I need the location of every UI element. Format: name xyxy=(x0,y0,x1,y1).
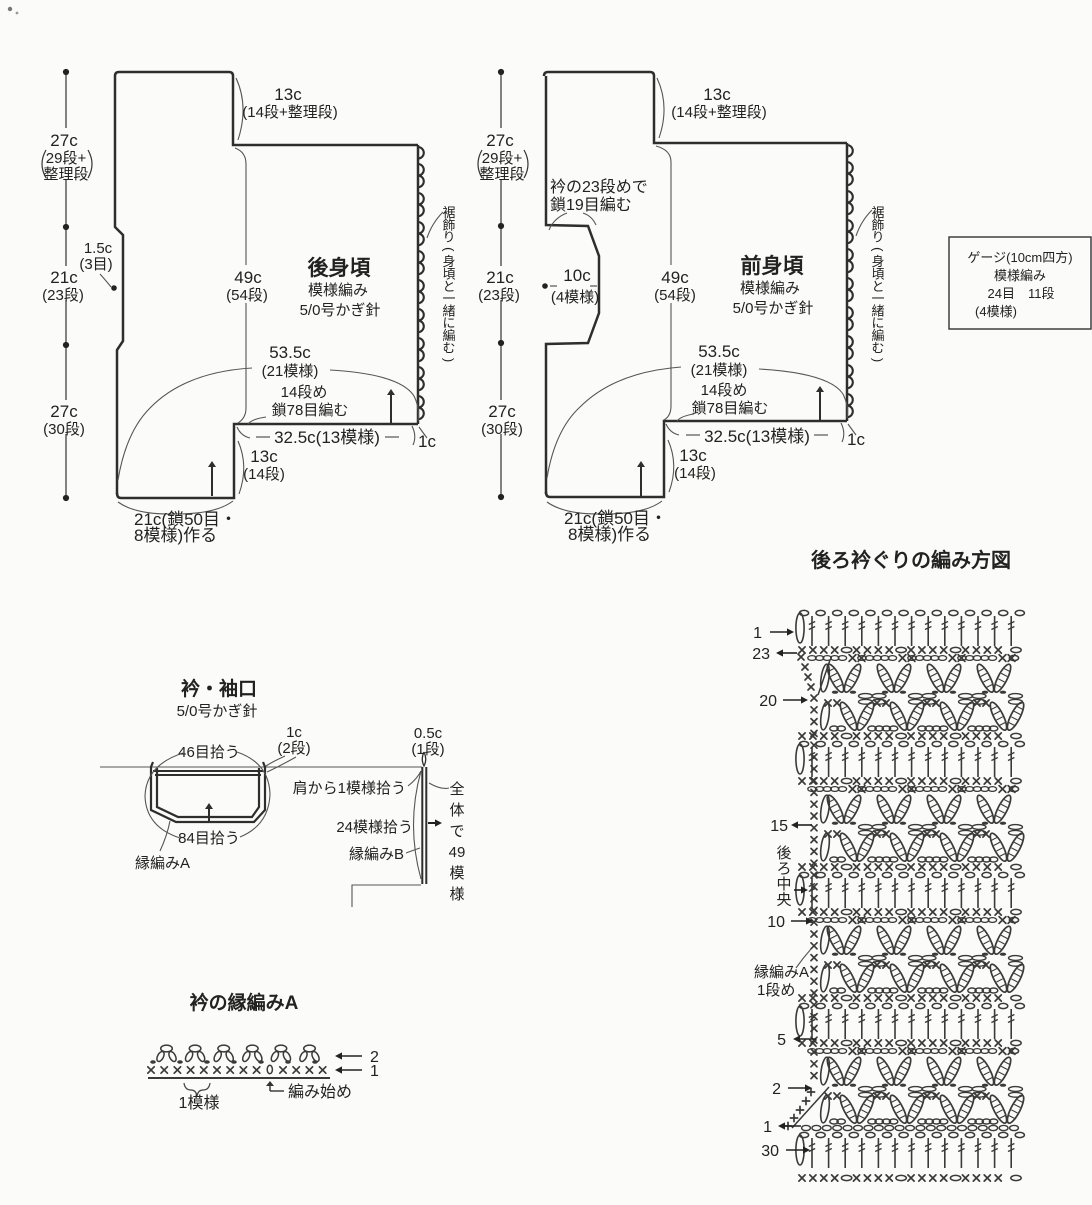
back 32.5c(13模様) label xyxy=(237,427,399,447)
back 53.5c(21模様) dimension arc xyxy=(118,343,419,480)
svg-text:縁編みB: 縁編みB xyxy=(349,846,404,863)
svg-text:(23段): (23段) xyxy=(478,287,520,304)
svg-text:1c: 1c xyxy=(847,430,865,449)
svg-text:53.5c: 53.5c xyxy=(698,342,740,361)
svg-text:24模様拾う: 24模様拾う xyxy=(336,819,413,836)
svg-text:1c: 1c xyxy=(286,724,302,741)
chart row: chain row block1 xyxy=(808,655,1019,662)
chart row: sc row after block2 xyxy=(799,864,1021,870)
svg-text:10: 10 xyxy=(767,914,785,931)
svg-text:後: 後 xyxy=(776,845,791,862)
svg-text:模様編み: 模様編み xyxy=(308,282,368,299)
edging A chain dots xyxy=(150,1060,318,1064)
svg-text:(4模様): (4模様) xyxy=(975,304,1017,319)
chart row: chain row block4 xyxy=(808,1048,1019,1055)
chart left edge decrease plus marks xyxy=(784,1088,814,1129)
edging A sc row xyxy=(148,1065,326,1073)
back 13c(14段) label xyxy=(238,441,285,494)
front 13c(14段) label xyxy=(668,440,716,492)
collar ellipse annotation xyxy=(145,752,270,838)
svg-text:): ) xyxy=(441,358,456,362)
svg-text:模: 模 xyxy=(449,865,464,882)
svg-text:5/0号かぎ針: 5/0号かぎ針 xyxy=(300,302,381,319)
svg-text:央: 央 xyxy=(776,892,791,909)
svg-text:53.5c: 53.5c xyxy=(269,343,311,362)
back dim label 21c(23段) xyxy=(42,266,88,304)
svg-text:1.5c: 1.5c xyxy=(84,240,113,257)
chart row: dc row 30 xyxy=(796,1132,1025,1168)
chart row: leaf row block2 a xyxy=(819,793,1022,835)
back dim label 27c(30段) xyxy=(42,400,88,438)
svg-text:模様編み: 模様編み xyxy=(740,280,800,297)
svg-text:整理段: 整理段 xyxy=(43,166,88,183)
chart row: dc row block1 xyxy=(796,610,1025,646)
svg-text:): ) xyxy=(870,358,885,362)
svg-text:14段め: 14段め xyxy=(701,382,748,399)
chart row: sc row after block1 xyxy=(799,733,1021,739)
svg-text:13c: 13c xyxy=(274,85,302,104)
svg-text:中: 中 xyxy=(776,876,791,893)
svg-text:24目 11段: 24目 11段 xyxy=(988,286,1055,301)
svg-text:1: 1 xyxy=(370,1063,379,1080)
back 49c(54段) leader and label xyxy=(226,148,268,423)
svg-text:ゲージ(10cm四方): ゲージ(10cm四方) xyxy=(967,250,1072,265)
svg-text:(14段+整理段): (14段+整理段) xyxy=(671,104,766,121)
svg-text:縁編みA: 縁編みA xyxy=(754,964,809,981)
svg-text:5: 5 xyxy=(777,1032,786,1049)
svg-text:14段め: 14段め xyxy=(281,384,328,401)
svg-text:49: 49 xyxy=(449,844,466,861)
front knitting direction arrows xyxy=(819,391,821,420)
back 1c label xyxy=(412,426,436,451)
back dimension line xyxy=(63,69,69,501)
chart row: dc row block2 xyxy=(796,741,1025,777)
back label 13c(14段+整理段) xyxy=(236,78,338,140)
body corner line xyxy=(352,885,421,907)
svg-text:縁編みA: 縁編みA xyxy=(135,855,190,872)
svg-text:13c: 13c xyxy=(250,447,278,466)
svg-text:46目拾う: 46目拾う xyxy=(178,744,240,761)
cuff 全体で49模様 vertical label xyxy=(429,780,465,903)
svg-text:49c: 49c xyxy=(661,268,689,287)
gauge box xyxy=(949,237,1091,329)
svg-text:0.5c: 0.5c xyxy=(414,725,443,742)
chart row: dc row block3 xyxy=(796,872,1025,908)
svg-text:8模様)作る: 8模様)作る xyxy=(568,525,651,544)
svg-text:(54段): (54段) xyxy=(654,287,696,304)
svg-text:(2段): (2段) xyxy=(277,740,310,757)
svg-text:(23段): (23段) xyxy=(42,287,84,304)
svg-text:(21模様): (21模様) xyxy=(262,363,319,380)
svg-text:肩から1模様拾う: 肩から1模様拾う xyxy=(293,780,406,797)
chart row: leaf row block4 a xyxy=(819,1055,1022,1097)
front label 14段め 鎖78目編む xyxy=(677,382,768,421)
svg-text:む: む xyxy=(442,340,455,355)
svg-text:(54段): (54段) xyxy=(226,287,268,304)
svg-text:29段+: 29段+ xyxy=(46,150,87,167)
svg-text:21c: 21c xyxy=(486,268,514,287)
collar outline xyxy=(151,762,265,822)
svg-text:体: 体 xyxy=(449,802,464,819)
front dim label 21c(23段) xyxy=(478,266,524,304)
edging A row arrows xyxy=(335,1049,379,1080)
svg-text:1模様: 1模様 xyxy=(179,1094,220,1112)
svg-text:1: 1 xyxy=(753,625,762,642)
svg-text:模様編み: 模様編み xyxy=(994,268,1046,283)
cuff edge double line xyxy=(422,752,426,884)
svg-text:衿の23段めで: 衿の23段めで xyxy=(550,178,648,196)
chart row: leaf row block3 b xyxy=(819,962,1026,994)
svg-text:1c: 1c xyxy=(418,432,436,451)
svg-text:10c: 10c xyxy=(563,266,591,285)
front piece title 前身頃 xyxy=(733,254,814,317)
svg-text:84目拾う: 84目拾う xyxy=(178,830,240,847)
svg-text:(14段): (14段) xyxy=(243,466,285,483)
svg-text:前身頃: 前身頃 xyxy=(741,254,805,278)
chart row: sc row block2 xyxy=(799,778,1021,784)
svg-text:29段+: 29段+ xyxy=(482,150,523,167)
front dim label 27c(30段) xyxy=(480,400,526,438)
cuff 縁編みB label xyxy=(349,846,420,863)
front hem label 裾飾り xyxy=(856,205,885,362)
chart 縁編みA 1段め label xyxy=(754,949,811,999)
back hem label 裾飾り xyxy=(427,205,456,362)
svg-text:り: り xyxy=(442,230,455,245)
back piece title 後身頃 xyxy=(300,256,381,319)
svg-text:(: ( xyxy=(441,247,456,252)
chart row: leaf row block3 a xyxy=(819,924,1022,966)
chart row: bottom sc row xyxy=(799,1175,1021,1181)
svg-text:編み始め: 編み始め xyxy=(288,1083,352,1101)
cuff 24模様拾う label xyxy=(336,771,421,879)
svg-text:2: 2 xyxy=(772,1081,781,1098)
svg-text:8模様)作る: 8模様)作る xyxy=(134,526,217,545)
svg-text:32.5c(13模様): 32.5c(13模様) xyxy=(704,427,810,446)
svg-text:で: で xyxy=(449,823,464,840)
svg-text:(14段+整理段): (14段+整理段) xyxy=(242,104,337,121)
shoulder line xyxy=(100,766,422,768)
collar 縁編みA label xyxy=(135,821,190,872)
chart row: chain row 1 xyxy=(802,1125,1019,1130)
svg-text:鎖19目編む: 鎖19目編む xyxy=(550,196,632,214)
chart 後ろ中央 label xyxy=(776,845,808,909)
svg-text:全: 全 xyxy=(449,780,464,798)
front 1c label xyxy=(841,423,865,449)
chart row: dc row block4 xyxy=(796,1003,1025,1039)
chart left edge sc column xyxy=(798,654,817,1079)
back knitting direction arrows xyxy=(390,394,392,423)
svg-text:(30段): (30段) xyxy=(481,421,523,438)
edging A foundation line xyxy=(148,1077,330,1079)
svg-text:1段め: 1段め xyxy=(757,982,795,999)
front hem scallop edge xyxy=(847,143,853,421)
cuff count arrow xyxy=(428,822,437,824)
cuff 0.5c(1段) label xyxy=(411,725,444,758)
chart row: leaf row block4 b xyxy=(819,1093,1026,1125)
svg-text:(3目): (3目) xyxy=(79,256,112,273)
svg-text:(: ( xyxy=(870,247,885,252)
svg-text:30: 30 xyxy=(761,1143,779,1160)
edging A 編み始め label xyxy=(266,1081,352,1101)
back 21c bottom label xyxy=(118,501,237,545)
front label 13c(14段+整理段) xyxy=(657,78,767,138)
front neck label 衿の23段めで鎖19目編む xyxy=(549,178,648,230)
chart row: leaf row block2 b xyxy=(819,831,1026,863)
chart row: sc row block4 xyxy=(799,1040,1021,1046)
svg-text:む: む xyxy=(871,340,884,355)
chart row numbers and arrows xyxy=(752,625,816,1160)
back hem scallop edge xyxy=(418,145,424,424)
back label 14段め 鎖78目編む xyxy=(248,384,348,424)
back dim label 27c(29段+整理段) xyxy=(40,128,92,183)
svg-text:5/0号かぎ針: 5/0号かぎ針 xyxy=(733,300,814,317)
edging A 1模様 brace and label xyxy=(179,1083,220,1112)
svg-text:13c: 13c xyxy=(703,85,731,104)
svg-text:鎖78目編む: 鎖78目編む xyxy=(272,402,349,419)
svg-text:20: 20 xyxy=(759,693,777,710)
svg-text:整理段: 整理段 xyxy=(479,166,524,183)
svg-text:1: 1 xyxy=(763,1119,772,1136)
svg-text:鎖78目編む: 鎖78目編む xyxy=(692,400,769,417)
svg-text:ろ: ろ xyxy=(776,861,791,878)
front neck 10c(4模様) label xyxy=(542,266,599,306)
svg-text:衿・袖口: 衿・袖口 xyxy=(181,677,257,700)
chart decrease slash top xyxy=(818,660,830,695)
svg-text:5/0号かぎ針: 5/0号かぎ針 xyxy=(177,703,258,720)
svg-text:(1段): (1段) xyxy=(411,741,444,758)
chart row: sc row after block3 xyxy=(799,995,1021,1001)
cuff 肩から1模様拾う label xyxy=(293,771,421,797)
svg-text:様: 様 xyxy=(449,886,464,903)
chart row: leaf row block1 a xyxy=(819,662,1022,704)
chart row: chain row block2 xyxy=(808,786,1019,793)
front 32.5c(13模様) label xyxy=(666,424,828,446)
svg-text:27c: 27c xyxy=(50,402,78,421)
svg-text:(14段): (14段) xyxy=(674,465,716,482)
svg-text:(30段): (30段) xyxy=(43,421,85,438)
chart row: chain row block3 xyxy=(808,917,1019,924)
front dimension line xyxy=(498,69,504,500)
svg-text:(4模様): (4模様) xyxy=(551,289,599,306)
scan speck xyxy=(8,7,12,11)
chart row: leaf row block1 b xyxy=(819,700,1026,732)
back label 1.5c(3目) xyxy=(79,240,116,291)
chart row: sc row block1 xyxy=(799,647,1021,653)
collar section title xyxy=(177,677,258,720)
svg-text:27c: 27c xyxy=(488,402,516,421)
svg-text:32.5c(13模様): 32.5c(13模様) xyxy=(274,428,380,447)
svg-text:(21模様): (21模様) xyxy=(691,362,748,379)
front 53.5c(21模様) dimension arc xyxy=(547,342,848,478)
svg-text:後身頃: 後身頃 xyxy=(308,256,372,280)
svg-text:衿の縁編みA: 衿の縁編みA xyxy=(190,991,299,1014)
front dim label 27c(29段+整理段) xyxy=(476,128,528,183)
edging A picot arches xyxy=(155,1045,320,1063)
chart row: sc row block3 xyxy=(799,909,1021,915)
front 21c bottom label xyxy=(547,501,667,544)
front piece outline xyxy=(544,72,847,497)
svg-text:り: り xyxy=(871,230,884,245)
svg-text:21c: 21c xyxy=(50,268,78,287)
svg-text:49c: 49c xyxy=(234,268,262,287)
svg-text:後ろ衿ぐりの編み方図: 後ろ衿ぐりの編み方図 xyxy=(811,548,1011,572)
svg-text:27c: 27c xyxy=(50,131,78,150)
svg-text:23: 23 xyxy=(752,646,770,663)
svg-text:27c: 27c xyxy=(486,131,514,150)
chart decrease slash bottom xyxy=(792,1087,829,1128)
collar pickup arrow xyxy=(208,808,210,821)
svg-text:15: 15 xyxy=(770,818,788,835)
back piece outline xyxy=(115,72,418,498)
svg-text:13c: 13c xyxy=(679,446,707,465)
front 49c(54段) leader and label xyxy=(654,146,696,420)
collar 1c(2段) label xyxy=(266,724,311,772)
